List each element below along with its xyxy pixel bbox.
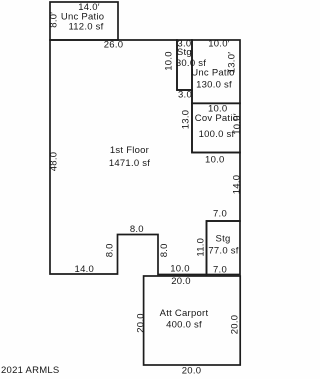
svg-text:400.0 sf: 400.0 sf xyxy=(166,320,202,331)
svg-text:8.0′: 8.0′ xyxy=(49,12,60,28)
svg-text:20.0: 20.0 xyxy=(182,366,202,377)
svg-text:10.0: 10.0 xyxy=(170,264,190,275)
svg-text:20.0: 20.0 xyxy=(230,315,241,335)
stg (bottom) box 7x11 xyxy=(207,221,241,275)
cov patio box 10x10 xyxy=(192,103,240,152)
svg-text:77.0 sf: 77.0 sf xyxy=(208,245,238,256)
svg-text:13.0: 13.0 xyxy=(181,110,192,130)
svg-text:2021 ARMLS: 2021 ARMLS xyxy=(1,365,59,376)
svg-text:11.0: 11.0 xyxy=(195,238,206,257)
svg-text:7.0: 7.0 xyxy=(213,209,227,220)
svg-text:10.0′: 10.0′ xyxy=(208,39,230,50)
svg-text:20.0: 20.0 xyxy=(136,313,147,333)
stg (top) box 3x10 xyxy=(177,40,192,90)
svg-text:7.0: 7.0 xyxy=(213,264,227,275)
svg-text:48.0: 48.0 xyxy=(49,152,60,172)
svg-text:26.0: 26.0 xyxy=(104,40,124,51)
svg-text:14.0: 14.0 xyxy=(75,264,95,275)
svg-text:8.0: 8.0 xyxy=(130,224,144,235)
svg-text:8.0: 8.0 xyxy=(105,243,116,257)
svg-text:1st Floor: 1st Floor xyxy=(110,145,149,156)
unc patio (top) box 14x8 xyxy=(50,2,118,40)
svg-text:10.0: 10.0 xyxy=(164,51,175,71)
svg-text:1471.0 sf: 1471.0 sf xyxy=(109,158,150,169)
svg-text:130.0 sf: 130.0 sf xyxy=(196,80,232,91)
svg-text:13.0′: 13.0′ xyxy=(227,52,238,74)
svg-text:20.0: 20.0 xyxy=(171,276,191,287)
svg-text:3.0: 3.0 xyxy=(178,90,192,101)
svg-text:100.0 sf: 100.0 sf xyxy=(199,129,235,140)
svg-text:Att Carport: Att Carport xyxy=(160,308,209,319)
svg-text:10.0: 10.0 xyxy=(205,154,225,165)
svg-text:Stg: Stg xyxy=(215,233,230,244)
svg-text:8.0: 8.0 xyxy=(159,243,170,257)
svg-text:10.0′: 10.0′ xyxy=(232,113,243,135)
1st floor outline xyxy=(50,40,240,275)
svg-text:112.0 sf: 112.0 sf xyxy=(68,22,103,33)
unc patio (right) box 10x13 xyxy=(192,40,240,103)
svg-text:14.0: 14.0 xyxy=(231,175,242,195)
att carport box 20x20 xyxy=(144,276,241,365)
svg-text:Stg: Stg xyxy=(177,47,192,58)
